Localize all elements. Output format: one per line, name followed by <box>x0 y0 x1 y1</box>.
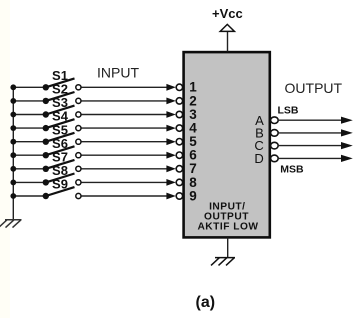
active-low bubble pin 2 <box>176 98 182 104</box>
switch S5 throw contact <box>76 139 81 144</box>
switch S8 throw contact <box>76 180 81 185</box>
wire output C <box>278 145 342 147</box>
label S1 <box>52 68 68 83</box>
input arrowhead pin 6 <box>166 152 175 159</box>
switch S7 lever <box>46 160 75 169</box>
junction node bus row 1 <box>10 84 16 90</box>
faint left margin strip <box>0 0 10 318</box>
junction node bus row 3 <box>10 112 16 118</box>
switch S7 pole contact <box>43 166 49 172</box>
wire switch S5 to IC input 5 <box>78 141 167 143</box>
wire bus to switch S6 pole <box>13 154 46 156</box>
wire Vcc to IC top <box>227 31 229 51</box>
svg-text:(a): (a) <box>196 294 216 311</box>
wire switch S4 to IC input 4 <box>78 127 167 129</box>
junction node bus row 9 <box>10 193 16 199</box>
output arrowhead C <box>341 142 353 149</box>
active-low bubble pin 7 <box>176 166 182 172</box>
input arrowhead pin 7 <box>166 165 175 172</box>
active-low bubble pin 5 <box>176 139 182 145</box>
switch S3 lever <box>46 106 75 115</box>
active-low bubble pin 6 <box>176 152 182 158</box>
+Vcc power symbol (hollow up arrow) <box>220 24 234 31</box>
switch S9 throw contact <box>76 193 81 198</box>
switch S5 lever <box>46 133 75 142</box>
label S7 <box>52 149 68 164</box>
wire output A <box>278 119 342 121</box>
input arrowhead pin 3 <box>166 111 175 118</box>
wire switch S6 to IC input 6 <box>78 154 167 156</box>
switch S4 pole contact <box>43 125 49 131</box>
switch S8 lever <box>46 174 75 183</box>
wire bus to switch S8 pole <box>13 181 46 183</box>
active-low bubble pin 4 <box>176 125 182 131</box>
switch S2 lever <box>46 92 75 101</box>
svg-text:MSB: MSB <box>280 164 304 176</box>
junction node bus row 6 <box>10 152 16 158</box>
junction node bus row 4 <box>10 125 16 131</box>
svg-text:INPUT: INPUT <box>97 65 139 81</box>
active-low bubble pin 3 <box>176 111 182 117</box>
active-low bubble pin 9 <box>176 193 182 199</box>
switch S6 lever <box>46 146 75 155</box>
wire switch S2 to IC input 2 <box>78 100 167 102</box>
label S5 <box>52 122 68 137</box>
svg-text:OUTPUT: OUTPUT <box>285 80 343 96</box>
wire bus to switch S4 pole <box>13 127 46 129</box>
wire switch S9 to IC input 9 <box>78 195 167 197</box>
wire bus to switch S5 pole <box>13 141 46 143</box>
output arrowhead B <box>341 129 353 136</box>
label S9 <box>52 177 68 192</box>
input arrowhead pin 8 <box>166 179 175 186</box>
label S6 <box>52 136 68 151</box>
wire switch S3 to IC input 3 <box>78 114 167 116</box>
switch S2 throw contact <box>76 98 81 103</box>
switch S4 lever <box>46 119 75 128</box>
input arrowhead pin 4 <box>166 125 175 132</box>
junction node bus row 5 <box>10 139 16 145</box>
output arrowhead D <box>341 155 353 162</box>
input arrowhead pin 9 <box>166 193 175 200</box>
wire switch S1 to IC input 1 <box>78 86 167 88</box>
active-low bubble output D <box>271 155 279 162</box>
switch S4 throw contact <box>76 126 81 131</box>
junction node bus row 7 <box>10 166 16 172</box>
active-low bubble pin 8 <box>176 179 182 185</box>
switch S6 throw contact <box>76 153 81 158</box>
ground (IC) <box>211 258 235 266</box>
switch S2 pole contact <box>43 98 49 104</box>
switch S3 pole contact <box>43 111 49 117</box>
wire left common bus <box>12 87 14 220</box>
wire output B <box>278 132 342 134</box>
ground (left bus) <box>0 220 22 228</box>
junction node bus row 8 <box>10 180 16 186</box>
active-low bubble output A <box>271 117 279 124</box>
switch S7 throw contact <box>76 166 81 171</box>
switch S9 lever <box>46 187 75 196</box>
label S8 <box>52 163 68 178</box>
wire bus to switch S2 pole <box>13 100 46 102</box>
wire bus to switch S3 pole <box>13 114 46 116</box>
wire bus to switch S1 pole <box>13 86 46 88</box>
label S3 <box>52 95 68 110</box>
wire switch S8 to IC input 8 <box>78 181 167 183</box>
switch S1 lever <box>46 78 75 87</box>
wire bus to switch S9 pole <box>13 195 46 197</box>
switch S1 throw contact <box>76 85 81 90</box>
label S4 <box>52 109 69 124</box>
svg-text:+Vcc: +Vcc <box>212 6 243 21</box>
svg-text:AKTIF LOW: AKTIF LOW <box>197 221 258 232</box>
label S2 <box>52 82 68 97</box>
switch S8 pole contact <box>43 179 49 185</box>
svg-text:9: 9 <box>189 188 197 203</box>
switch S5 pole contact <box>43 139 49 145</box>
wire IC bottom to ground <box>227 237 229 257</box>
svg-text:D: D <box>254 151 263 166</box>
active-low bubble pin 1 <box>176 84 182 90</box>
wire bus to switch S7 pole <box>13 168 46 170</box>
switch S3 throw contact <box>76 112 81 117</box>
wire output D <box>278 157 342 159</box>
output arrowhead A <box>341 117 353 124</box>
active-low bubble output B <box>271 130 279 137</box>
wire switch S7 to IC input 7 <box>78 168 167 170</box>
input arrowhead pin 5 <box>166 138 175 145</box>
switch S6 pole contact <box>43 152 49 158</box>
switch S9 pole contact <box>43 193 49 199</box>
switch S1 pole contact <box>43 84 49 90</box>
input arrowhead pin 1 <box>166 84 175 91</box>
svg-text:LSB: LSB <box>278 105 299 117</box>
input arrowhead pin 2 <box>166 98 175 105</box>
IC U1 (priority encoder) body <box>184 52 270 237</box>
active-low bubble output C <box>271 142 279 149</box>
junction node bus row 2 <box>10 98 16 104</box>
